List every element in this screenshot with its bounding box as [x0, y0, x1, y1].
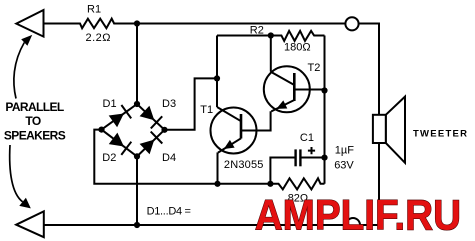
svg-text:R1: R1 — [87, 3, 101, 15]
svg-text:AMPLIF.RU: AMPLIF.RU — [255, 191, 461, 239]
svg-text:63V: 63V — [334, 159, 354, 171]
svg-text:R2: R2 — [250, 24, 264, 36]
svg-text:SPEAKERS: SPEAKERS — [4, 128, 66, 142]
svg-text:T2: T2 — [308, 62, 321, 74]
svg-text:C1: C1 — [300, 132, 314, 144]
svg-text:D1...D4 =: D1...D4 = — [147, 206, 191, 218]
svg-text:D3: D3 — [162, 98, 176, 110]
svg-text:T1: T1 — [200, 104, 213, 116]
svg-text:TO: TO — [25, 114, 41, 128]
svg-text:1µF: 1µF — [335, 145, 354, 157]
svg-text:2.2Ω: 2.2Ω — [86, 32, 112, 44]
svg-text:D4: D4 — [162, 152, 176, 164]
svg-text:TWEETER: TWEETER — [413, 128, 468, 139]
svg-text:D1: D1 — [103, 98, 117, 110]
svg-text:D2: D2 — [102, 152, 116, 164]
svg-text:180Ω: 180Ω — [284, 42, 311, 54]
svg-text:2N3055: 2N3055 — [224, 159, 264, 171]
svg-text:PARALLEL: PARALLEL — [5, 100, 64, 114]
